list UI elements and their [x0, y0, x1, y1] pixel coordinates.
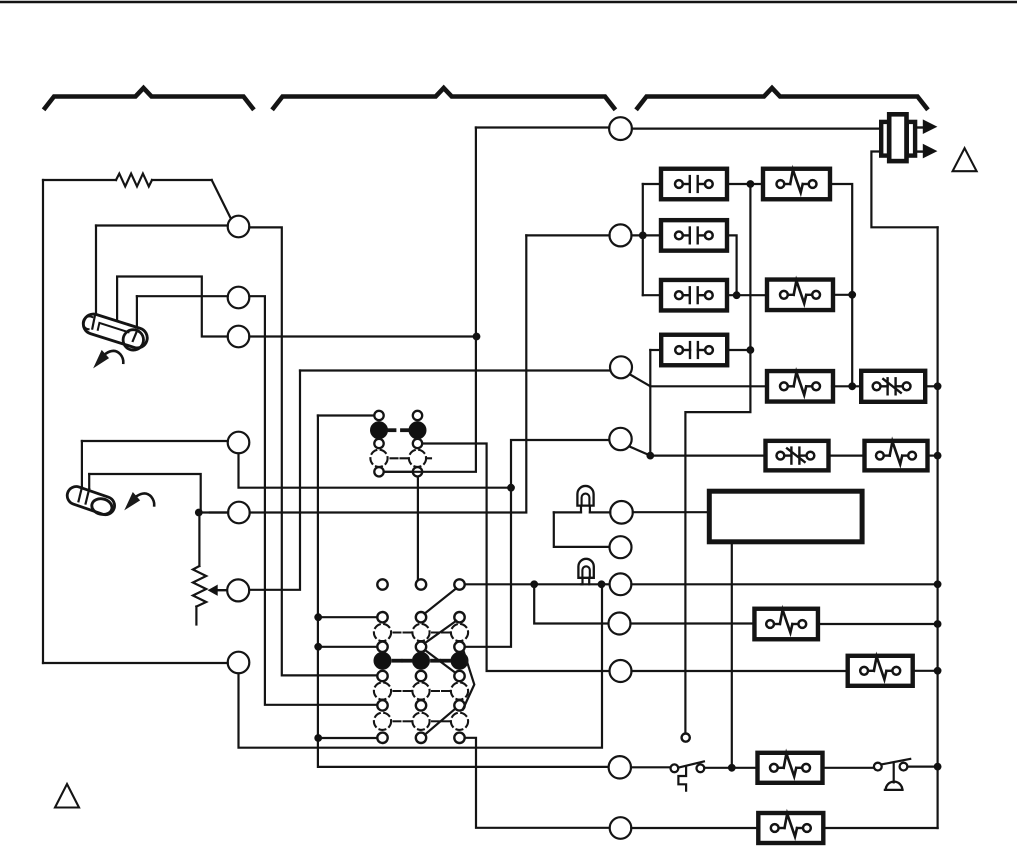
- wire T10 right to switch S1: [631, 766, 671, 768]
- wire S2 to rail: [908, 765, 938, 767]
- indicator lamp LP2: [578, 559, 593, 584]
- contact K2: [661, 220, 727, 251]
- wire terminal7 left: [43, 662, 228, 664]
- wire P1 bottom row to T1 vertical: [384, 128, 476, 472]
- wire terminal4 left: [82, 440, 228, 442]
- wire T8 feeder: [534, 584, 608, 623]
- wire resistor to node: [152, 179, 212, 181]
- open contact point circle: [682, 734, 690, 742]
- wire terminal1 right: [249, 227, 377, 675]
- wire P2 col3 row10 to T11: [465, 738, 610, 828]
- wire diagonal into terminal 1: [212, 180, 232, 219]
- wire P2 col3 row4 right to T4 vertical: [465, 440, 609, 647]
- connector J1 right bracket: [907, 122, 915, 156]
- overload OL7: [758, 753, 823, 783]
- overload OL6: [848, 656, 913, 686]
- potentiometer wiper arrow: [209, 585, 228, 595]
- wire terminal2 left: [137, 295, 228, 297]
- terminal T11: [610, 817, 632, 839]
- mercury switch MS1 body: [80, 311, 150, 350]
- NC contact NC1: [861, 371, 925, 402]
- P1 mating dashes filled row: [388, 428, 410, 432]
- overload OL1: [763, 169, 830, 200]
- wire T1 left corner: [476, 126, 609, 128]
- wire drop to mercury bulb blob: [136, 296, 138, 332]
- wire drop to mercury2 electrode a: [81, 441, 83, 488]
- terminal T10: [609, 756, 631, 778]
- wire T5 right to relay box: [633, 511, 710, 513]
- terminal T3: [610, 356, 632, 378]
- connector plug P2 pins (3x10): [374, 579, 468, 743]
- junction dot P2 col1 row4: [314, 643, 322, 651]
- wire T7 right to rail: [631, 583, 937, 585]
- rotation arrow for MS2: [126, 493, 154, 508]
- junction dot rail row455: [934, 452, 942, 460]
- switch S1 manual operator: [678, 767, 686, 791]
- mercury switch MS1 electrode a: [92, 316, 95, 328]
- wire dot to Z3: [733, 767, 758, 769]
- wire Z2 right to rail: [913, 670, 938, 672]
- wire T5-T6 U link: [554, 512, 610, 547]
- A4/T3/T4 node vertical: [649, 350, 651, 456]
- junction dot T2/A-column: [639, 232, 647, 240]
- P2 switch blade e (col2 row10 - col3 row8): [425, 709, 455, 735]
- junction dot rail row386: [934, 382, 942, 390]
- junction dot terminal3/T1 vertical: [473, 333, 481, 341]
- junction dot U1/S1: [728, 764, 736, 772]
- junction dot NC1 left: [848, 382, 856, 390]
- brace group 1 (thermostat section): [45, 88, 253, 108]
- terminal circle Y (left col 3): [228, 326, 250, 348]
- wire dot to T7: [602, 583, 610, 585]
- overload OL4: [865, 441, 928, 471]
- wire P1 col2 pin3 to T9 feeder: [423, 444, 610, 672]
- junction dot T8 feeder: [530, 580, 538, 588]
- junction dot A2/A3: [733, 291, 741, 299]
- switch S2 contact circles: [874, 763, 908, 771]
- terminal T8: [609, 613, 631, 635]
- P2 switch blade d chevron (col3 row4 - col3 row8): [463, 651, 475, 710]
- wire terminal3 left path: [117, 277, 228, 337]
- wire A2 right corner: [727, 235, 737, 295]
- switch blade T4: [630, 447, 651, 456]
- wire Z1 right to rail: [818, 623, 938, 625]
- wire terminal1 left: [96, 224, 228, 226]
- wire NC1 right to rail: [925, 385, 937, 387]
- junction dot rail row671: [934, 667, 942, 675]
- junction dot P2 col1 row2: [314, 613, 322, 621]
- junction dot A1/B1: [747, 180, 755, 188]
- wire A3 right: [727, 294, 767, 296]
- wire B1 right corner: [830, 184, 852, 386]
- wire terminal6 right: [249, 371, 300, 590]
- terminal T4: [609, 428, 631, 450]
- connector J1 left bracket: [881, 122, 889, 156]
- P2 mating dashes: [394, 633, 450, 722]
- wire Z3 right to switch S2: [823, 767, 874, 769]
- wire mercury2 electrode b: [89, 474, 201, 512]
- wire OL3 to NC1: [832, 385, 862, 387]
- wire A1 right: [727, 183, 763, 185]
- wire heat long row: [210, 511, 228, 513]
- terminal circle fan (left col 6): [227, 579, 249, 601]
- page top rule: [0, 1, 1017, 4]
- note triangle 1: [953, 148, 977, 171]
- overload OL5: [754, 609, 818, 640]
- wire T1 to plug connector: [632, 128, 882, 130]
- terminal T5: [610, 501, 633, 524]
- potentiometer stem: [198, 513, 200, 567]
- mercury switch MS2 mercury blob: [90, 497, 113, 517]
- switch S2 thermal dome: [885, 782, 903, 790]
- switch S1 blade: [678, 761, 704, 767]
- mercury switch MS1 mercury blob: [123, 330, 143, 350]
- wire A3 left: [643, 294, 661, 296]
- terminal circle 2-left wire/corner: [249, 296, 377, 705]
- terminal T7: [610, 573, 632, 595]
- wire dot to terminal5: [199, 511, 228, 513]
- right rail vertical: [936, 227, 938, 828]
- wire to P2 col1 row4: [318, 646, 377, 648]
- wire P1 col2 bottom drop to P2: [417, 477, 419, 580]
- potentiometer resistor zigzag: [193, 566, 206, 607]
- P2 switch blade c (col2 row4 - col3 row6): [425, 650, 455, 672]
- switch S2 blade: [881, 759, 910, 765]
- terminal circle G (left col 4): [228, 432, 250, 454]
- NC contact NC2: [766, 441, 829, 471]
- A-column left bus vertical: [642, 184, 644, 295]
- wire U1 bottom drop: [731, 542, 733, 768]
- wire drop to mercury bulb electrode a: [95, 226, 97, 317]
- brace group 3 (fan center / equipment section): [638, 88, 927, 108]
- terminal circle R (left col 1): [228, 216, 250, 238]
- wire P2 col3 row1 right (to indicator): [465, 583, 581, 585]
- wire T4 row to NC2: [650, 455, 766, 457]
- wire to P2 col1 row2: [318, 616, 377, 618]
- wire A4 right: [727, 349, 750, 351]
- wire terminal5 right long to T2 corner: [250, 235, 527, 512]
- contact K4: [661, 335, 727, 366]
- mercury switch MS2 electrode b: [86, 489, 90, 504]
- wire P1 col1 feeder vertical: [318, 416, 609, 767]
- junction dot rail row624: [934, 620, 942, 628]
- wire left rail top: [43, 179, 116, 181]
- rotation arrow for MS1: [95, 351, 123, 367]
- switch S2 stem: [893, 763, 895, 783]
- contact K1 (cool relay contact): [661, 169, 727, 200]
- terminal circle B (left col 5): [228, 502, 250, 524]
- wire S1 to dot: [704, 767, 733, 769]
- vertical A1-A4 link: [749, 184, 751, 350]
- overload OL8: [758, 813, 823, 843]
- note triangle 2: [55, 784, 79, 808]
- wire T3 left: [300, 369, 610, 371]
- junction dot potentiometer top: [195, 509, 203, 517]
- wire B2 right: [833, 294, 852, 296]
- mercury switch MS2 electrode a: [79, 487, 82, 501]
- wire NC2 to OL4: [829, 455, 866, 457]
- junction dot A4 end: [747, 346, 755, 354]
- indicator lamp LP1: [577, 486, 593, 512]
- control module U1: [709, 491, 862, 542]
- terminal circle common (left col 7): [228, 652, 250, 674]
- junction dot B2/vertical: [848, 291, 856, 299]
- junction dot common feeder: [598, 580, 606, 588]
- wire A4 node to small contact drop: [685, 350, 750, 734]
- terminal T9: [610, 660, 632, 682]
- switch S1 contact circles: [671, 764, 705, 772]
- wire T2 right to contact A2: [632, 234, 662, 236]
- contact K3: [661, 280, 727, 311]
- P2 switch blade a (col3 row1 - col2 row2): [425, 588, 457, 613]
- brace group 2 (subbase section): [274, 88, 615, 108]
- connector J1 body: [889, 114, 906, 161]
- connector J1 arrow pin 1: [916, 120, 937, 133]
- wire mercury2 electrode b drop: [88, 474, 90, 489]
- junction dot fan wire / T4 vertical: [507, 484, 515, 492]
- wire terminal7 bottom drop: [239, 584, 603, 747]
- wire A4 left: [650, 349, 661, 351]
- wire Z4 right to rail corner: [823, 827, 937, 829]
- junction dot T4 blade node: [646, 452, 654, 460]
- terminal T6: [610, 536, 632, 558]
- wire P1 col1-col2 bottom link: [384, 471, 413, 473]
- wire P1 col1 top: [318, 414, 374, 416]
- wire A1 left: [643, 183, 661, 185]
- terminal T1: [609, 117, 632, 140]
- mercury switch MS1 inner wall: [98, 323, 129, 332]
- wire T11 right through Z4: [631, 827, 758, 829]
- wire T2 left: [526, 234, 609, 236]
- mercury switch MS2 body: [65, 484, 117, 517]
- connector J1 arrow pin 2: [916, 145, 937, 158]
- wire terminal3 right long: [249, 335, 476, 337]
- wire T5 left w/ lamp: [554, 511, 610, 513]
- wire OL4 right to rail: [928, 455, 938, 457]
- junction dot P2 col1 row10: [314, 734, 322, 742]
- overload OL3: [767, 371, 833, 402]
- wire terminal4 bottom stub: [239, 453, 512, 487]
- P1 mating dashes dashed row: [391, 457, 432, 459]
- terminal circle W (left col 2): [228, 287, 250, 309]
- junction dot rail row767: [934, 763, 942, 771]
- plug pin2 wire: [871, 152, 937, 228]
- wire T3 row to OL3: [650, 385, 768, 387]
- resistor R1 (anticipator): [116, 174, 152, 187]
- overload OL2: [767, 280, 833, 311]
- junction dot rail/T7: [934, 580, 942, 588]
- wire lamp2 gap fill: [581, 583, 602, 585]
- connector plug P1 pins (2x5): [370, 411, 426, 477]
- wire T8 right to Z1: [631, 622, 755, 624]
- wire T9 right to Z2: [632, 670, 848, 672]
- wire to P2 col1 row10: [318, 737, 377, 739]
- mercury switch MS1 blob electrode: [133, 332, 137, 341]
- potentiometer bottom stub: [195, 607, 197, 625]
- P2 switch blade b (col2 row4 - col3 row2): [425, 621, 457, 644]
- switch blade T3: [630, 374, 651, 386]
- left vertical rail: [42, 180, 44, 663]
- terminal T2: [610, 224, 632, 246]
